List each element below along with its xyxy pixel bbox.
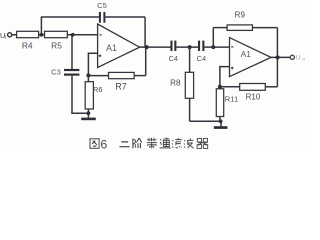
capacitor C4 (first) [170, 41, 176, 51]
wire: R9 riser [212, 28, 214, 47]
node 5 (stage-1 output node) [145, 45, 149, 49]
wire: R8 to ground rail [189, 98, 191, 121]
svg-text:A1: A1 [106, 43, 117, 53]
capacitor C5 [99, 12, 106, 23]
wire: op-amp A1 lower input to R6/R7 node [88, 53, 97, 75]
wire: op-amp 2 lower input to R10/R11 node [220, 67, 230, 87]
wire: top feedback rail, left segment [41, 16, 99, 18]
wire: top feedback rail, right segment [105, 16, 145, 18]
svg-text:U: U [296, 55, 301, 62]
wire: output rail drop from R9 [276, 28, 278, 58]
器 [197, 138, 208, 148]
二 [119, 142, 129, 147]
node 8 (R10/R11 junction) [218, 85, 222, 89]
svg-text:C4: C4 [169, 54, 178, 63]
resistor R7 [109, 72, 135, 78]
图 [90, 139, 99, 149]
capacitor C4 (second) [198, 41, 204, 51]
node 9 (ground rail junction) [219, 119, 223, 123]
resistor R5 [45, 31, 68, 37]
op-amp A1 (second stage) [230, 38, 272, 77]
滤 [172, 138, 182, 148]
wire: R7 to output riser [134, 75, 146, 77]
svg-text:C4: C4 [197, 54, 206, 63]
wire: R6 to ground rail [87, 109, 89, 114]
波 [184, 138, 194, 148]
wire: R7 riser to stage-1 output node [145, 47, 147, 75]
svg-text:i: i [5, 35, 6, 41]
svg-text:R11: R11 [225, 95, 238, 104]
wire: R10 to output rail [265, 86, 277, 88]
wire: C4 to op-amp 2 inverting input [204, 46, 229, 48]
svg-text:R9: R9 [235, 11, 246, 20]
svg-text:R5: R5 [51, 41, 62, 51]
wire: node 1 riser to top rail [40, 17, 42, 35]
通 [160, 138, 171, 148]
wire: C4 to C4 [176, 46, 198, 48]
op-amp A1 non-inverting input mark [99, 55, 102, 58]
node 7 (R9 tap junction) [211, 45, 215, 49]
svg-text:C3: C3 [51, 68, 61, 77]
output terminal circle [290, 55, 294, 59]
node 10 (output node) [276, 55, 280, 59]
wire: R5 to op-amp A1 inverting input [67, 34, 97, 36]
wire: node 3 to R7 [88, 75, 108, 77]
ground 1 [81, 118, 96, 121]
op-amp 2 inverting input mark [231, 46, 233, 48]
input terminal circle [8, 33, 12, 37]
svg-text:R10: R10 [246, 92, 261, 101]
wire: top rail drop to stage-1 output node [144, 17, 146, 47]
node 3 (R6/R7 junction) [86, 73, 90, 77]
wire: ground rail from C3 to R6 [71, 112, 88, 114]
ground 2 stub [220, 121, 222, 126]
阶 [133, 138, 142, 148]
wire: op-amp 2 output [271, 56, 290, 58]
ground 2 [214, 126, 228, 129]
svg-text:R7: R7 [115, 82, 127, 92]
op-amp A1 (first stage) [98, 24, 140, 68]
capacitor C3 [64, 69, 79, 76]
svg-text:o: o [302, 58, 305, 63]
wire: R4 to R5 [39, 34, 45, 36]
wire: node 8 to R11 [219, 87, 221, 89]
resistor R10 [240, 84, 266, 91]
wire: node 6 drop to R8 [189, 47, 191, 72]
op-amp A1 inverting input mark [99, 34, 101, 36]
resistor R6 [85, 82, 93, 109]
wire: R11 to ground rail [219, 117, 221, 122]
wire: node 8 to R10 [220, 86, 240, 88]
带 [147, 138, 157, 149]
wire: node 2 drop to C3 [71, 35, 73, 69]
node 4 (ground rail junction) [87, 111, 91, 115]
resistor R11 [216, 89, 223, 117]
wire: C3 to ground rail [71, 76, 73, 114]
wire: node 3 to R6 [87, 75, 89, 81]
ground 1 stub [87, 113, 89, 118]
wire: R9 right lead [252, 27, 277, 29]
wire: output rail riser from R10 [276, 57, 278, 86]
resistor R9 [227, 25, 252, 31]
svg-text:R6: R6 [93, 85, 102, 94]
svg-text:6: 6 [100, 137, 107, 151]
wire: input terminal to R4 [12, 34, 17, 36]
output terminal label Uo [296, 55, 306, 63]
node 1 (R4/R5/C5 junction) [40, 33, 44, 37]
wire: ground rail from R8 to R11 [190, 120, 221, 122]
op-amp 2 non-inverting input mark [231, 67, 234, 70]
svg-text:C5: C5 [97, 1, 107, 10]
svg-text:R8: R8 [170, 78, 181, 87]
node 2 (R5/C3 junction) [71, 33, 75, 37]
node 6 (C4/R8 junction) [188, 45, 192, 49]
input terminal label Ui [0, 31, 6, 41]
resistor R4 [17, 31, 39, 37]
svg-text:A1: A1 [241, 49, 252, 59]
wire: R9 left lead [213, 27, 227, 29]
wire: op-amp A1 output to C4 [140, 46, 171, 48]
caption: 图6 二阶带通滤波器 [90, 137, 208, 151]
resistor R8 [185, 72, 193, 98]
svg-text:R4: R4 [22, 41, 33, 51]
